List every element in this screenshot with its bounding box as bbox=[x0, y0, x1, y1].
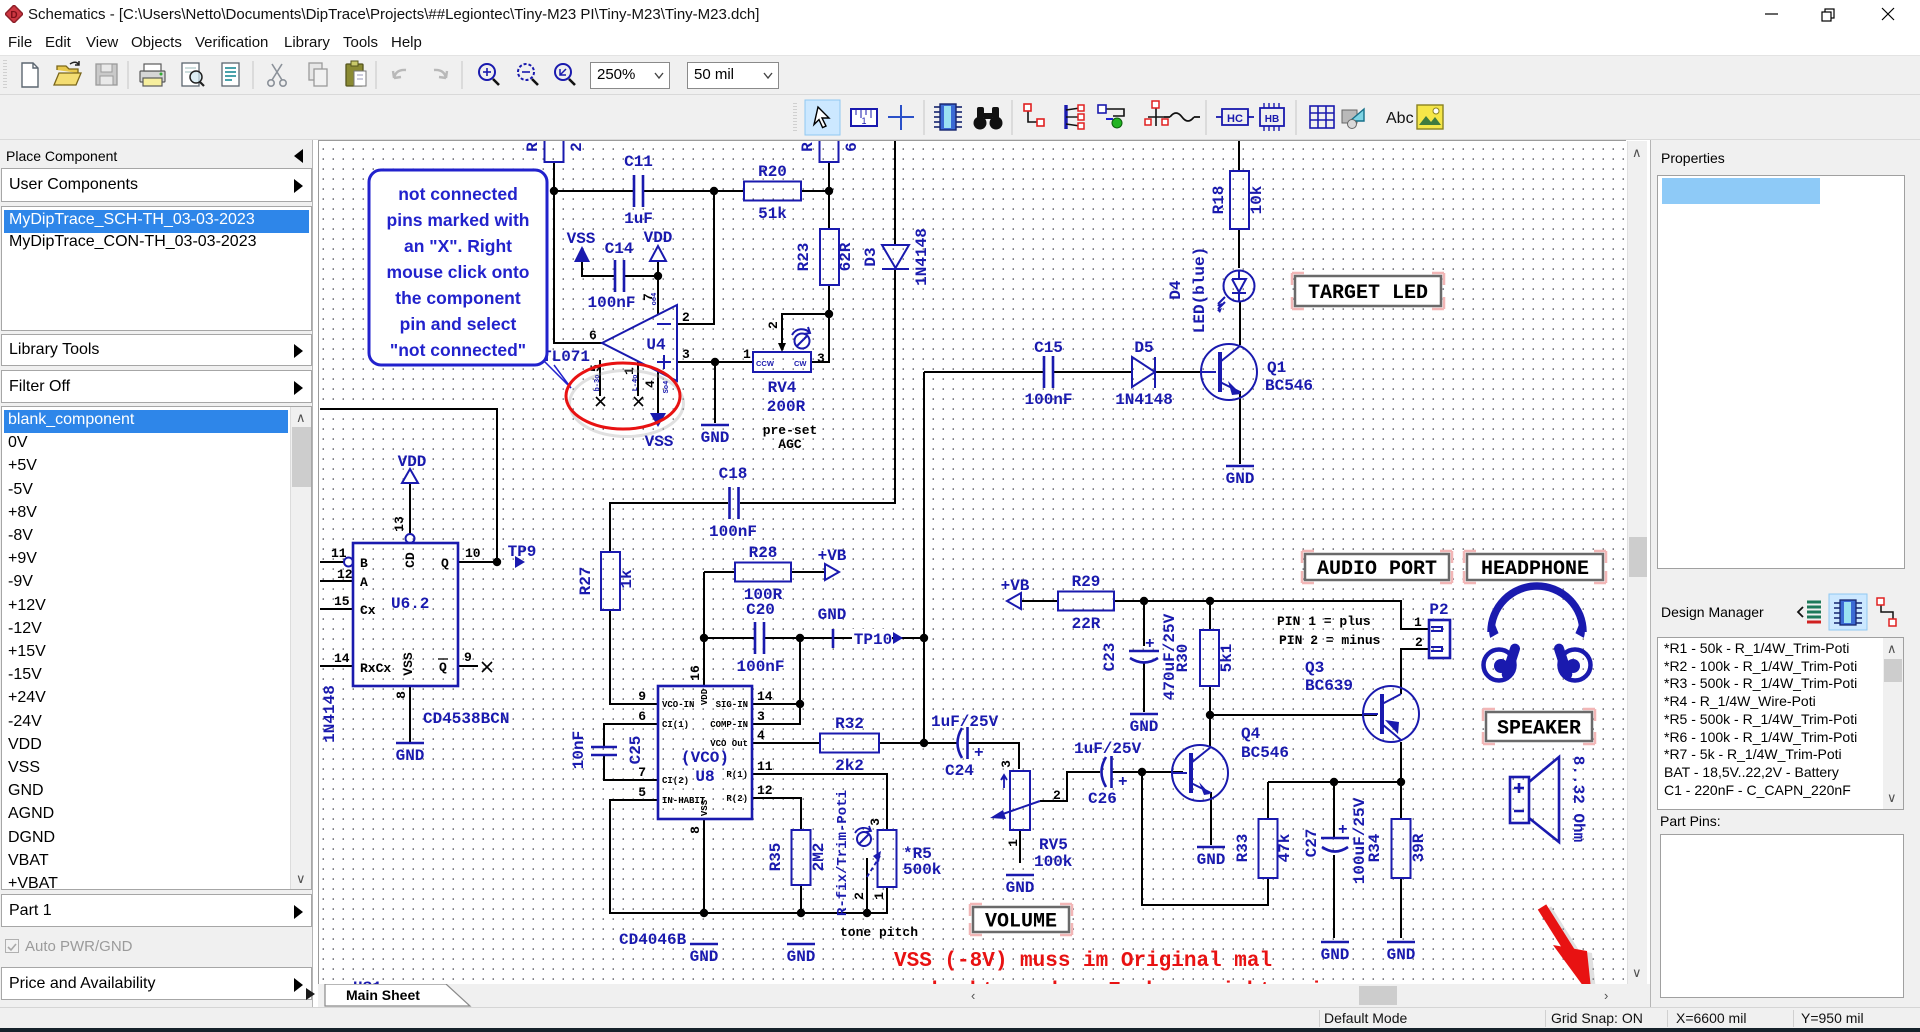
net +VB (R29) bbox=[1001, 577, 1030, 609]
wire Q1 emitter to GND bbox=[1239, 391, 1241, 464]
svg-text:+: + bbox=[1338, 821, 1348, 839]
svg-text:8: 8 bbox=[688, 826, 703, 834]
svg-text:A: A bbox=[360, 575, 368, 590]
ground (C23) bbox=[1130, 714, 1159, 736]
svg-text:VDD: VDD bbox=[644, 229, 673, 247]
capacitor C18 bbox=[709, 465, 757, 541]
wire C25 to U8 bbox=[604, 724, 658, 780]
svg-text:R27: R27 bbox=[577, 567, 595, 596]
svg-text:CCW: CCW bbox=[756, 359, 775, 368]
svg-text:L-4o: L-4o bbox=[632, 375, 640, 392]
wire D3 net to C18/R27 bbox=[610, 141, 895, 552]
svg-text:3: 3 bbox=[817, 351, 825, 366]
svg-text:8: 8 bbox=[394, 691, 409, 699]
svg-text:COMP-IN: COMP-IN bbox=[710, 720, 748, 730]
svg-text:3: 3 bbox=[868, 818, 883, 826]
svg-text:pin and select: pin and select bbox=[400, 314, 517, 334]
wire P2 pin2 Q3 bbox=[1401, 649, 1429, 782]
svg-text:7: 7 bbox=[638, 765, 646, 780]
svg-text:C23: C23 bbox=[1101, 643, 1119, 672]
svg-text:2k2: 2k2 bbox=[835, 757, 864, 775]
place component bbox=[934, 104, 962, 130]
svg-text:GND: GND bbox=[1006, 879, 1035, 897]
doc bbox=[222, 63, 239, 86]
resistor R23 bbox=[795, 229, 855, 285]
wire C14 / VDD / pin7 bbox=[582, 261, 658, 315]
svg-text:GND: GND bbox=[1130, 718, 1159, 736]
svg-text:Q: Q bbox=[439, 660, 447, 675]
svg-text:TP10: TP10 bbox=[854, 631, 892, 649]
capacitor C26 (polarized) bbox=[1074, 740, 1142, 808]
label box SPEAKER bbox=[1483, 709, 1595, 744]
svg-text:39R: 39R bbox=[1410, 833, 1428, 862]
svg-text:VSS (-8V) muss im Original mal: VSS (-8V) muss im Original mal bbox=[894, 950, 1272, 973]
picture bbox=[1417, 105, 1443, 129]
test point TP9 bbox=[508, 543, 537, 568]
svg-text:C27: C27 bbox=[1303, 829, 1321, 858]
capacitor C11 bbox=[624, 153, 653, 228]
svg-text:RV4: RV4 bbox=[768, 379, 797, 397]
svg-text:1uF/25V: 1uF/25V bbox=[1074, 740, 1142, 758]
resistor R22 (cut at top) bbox=[524, 128, 586, 162]
svg-text:RV5: RV5 bbox=[1039, 836, 1068, 854]
svg-text:9: 9 bbox=[638, 689, 646, 704]
ground (R34) bbox=[1387, 942, 1416, 964]
trimmer RV4 bbox=[743, 321, 825, 452]
svg-text:1: 1 bbox=[861, 116, 866, 126]
svg-text:mouse click onto: mouse click onto bbox=[387, 262, 530, 282]
svg-text:100k: 100k bbox=[1034, 853, 1073, 871]
zoom out bbox=[518, 64, 538, 85]
bus connect bbox=[1098, 105, 1124, 128]
ground (R35) bbox=[787, 944, 816, 966]
svg-text:47k: 47k bbox=[1276, 833, 1294, 862]
svg-text:U6.2: U6.2 bbox=[391, 595, 429, 613]
ground (U6.2 pin8) bbox=[396, 743, 425, 765]
speaker icon bbox=[1510, 756, 1587, 843]
svg-text:U8: U8 bbox=[695, 768, 714, 786]
svg-text:VSS: VSS bbox=[567, 230, 596, 248]
wire opamp nc pins bbox=[600, 360, 638, 396]
svg-text:R32: R32 bbox=[835, 715, 864, 733]
svg-text:VDD: VDD bbox=[398, 453, 427, 471]
svg-text:R29: R29 bbox=[1072, 573, 1101, 591]
bus bbox=[1066, 105, 1084, 129]
svg-text:1uF/25V: 1uF/25V bbox=[931, 713, 999, 731]
table bbox=[1310, 106, 1334, 128]
svg-text:CI(2): CI(2) bbox=[662, 776, 689, 786]
svg-text:9: 9 bbox=[464, 650, 472, 665]
svg-text:C26: C26 bbox=[1088, 790, 1117, 808]
open bbox=[54, 61, 81, 85]
svg-text:2M2: 2M2 bbox=[810, 843, 828, 872]
svg-text:1: 1 bbox=[872, 892, 887, 900]
svg-text:Main Sheet: Main Sheet bbox=[346, 987, 420, 1003]
svg-text:TP9: TP9 bbox=[508, 543, 537, 561]
LED D4 bbox=[1167, 247, 1255, 333]
wire opamp output to node bbox=[554, 191, 602, 343]
capacitor C20 bbox=[736, 601, 784, 676]
svg-text:SPEAKER: SPEAKER bbox=[1497, 718, 1581, 741]
wire VDD to pin13 bbox=[409, 484, 411, 534]
svg-text:1: 1 bbox=[1414, 615, 1422, 630]
bus wave bbox=[1164, 113, 1200, 121]
wire top net C11/R20 bbox=[554, 162, 829, 229]
svg-text:C20: C20 bbox=[746, 601, 775, 619]
svg-text:GND: GND bbox=[1387, 946, 1416, 964]
svg-text:GND: GND bbox=[1197, 851, 1226, 869]
svg-text:+: + bbox=[1145, 635, 1155, 653]
svg-text:›: › bbox=[1604, 988, 1608, 1003]
svg-text:4: 4 bbox=[643, 380, 658, 388]
svg-text:11: 11 bbox=[331, 546, 347, 561]
pin9 not-connected X bbox=[482, 662, 492, 672]
ground (C27) bbox=[1321, 942, 1350, 964]
wire opamp pin2 bbox=[677, 191, 714, 324]
resistor R29 bbox=[1058, 573, 1114, 633]
svg-text:CD: CD bbox=[403, 552, 418, 568]
wire U8 pin11 to R5 bbox=[752, 774, 887, 830]
save (disabled) bbox=[96, 64, 117, 85]
svg-text:10k: 10k bbox=[1248, 185, 1266, 214]
IC U8 CD4046B (VCO) bbox=[638, 665, 773, 834]
svg-text:C15: C15 bbox=[1034, 339, 1063, 357]
svg-text:+: + bbox=[974, 744, 984, 762]
wire VCO out R32 C24 bbox=[752, 372, 957, 743]
svg-text:D: D bbox=[10, 10, 17, 21]
resistor R35 bbox=[767, 830, 828, 885]
svg-text:+: + bbox=[1118, 773, 1128, 791]
redo bbox=[434, 70, 447, 78]
paste bbox=[346, 61, 366, 86]
svg-text:+VB: +VB bbox=[818, 547, 847, 565]
wire U8 pin14 pin3 bbox=[752, 638, 800, 724]
svg-text:500k: 500k bbox=[903, 861, 942, 879]
diode D5 bbox=[1115, 339, 1173, 409]
svg-text:12: 12 bbox=[337, 567, 353, 582]
svg-text:pins marked with: pins marked with bbox=[387, 210, 530, 230]
resistor R34 bbox=[1366, 819, 1428, 878]
cut bbox=[268, 64, 286, 86]
svg-text:U4: U4 bbox=[646, 336, 666, 354]
svg-text:B: B bbox=[360, 556, 368, 571]
svg-text:BC639: BC639 bbox=[1305, 677, 1353, 695]
svg-text:D4: D4 bbox=[1167, 280, 1185, 300]
wire opamp pin3 to RV4 bbox=[677, 361, 753, 363]
wire C23 bbox=[1143, 601, 1145, 712]
undo bbox=[393, 70, 406, 78]
svg-text:TARGET LED: TARGET LED bbox=[1308, 282, 1428, 305]
print bbox=[140, 64, 165, 86]
headphone icon bbox=[1484, 586, 1591, 681]
svg-text:Abc: Abc bbox=[1386, 110, 1414, 127]
copy bbox=[309, 63, 327, 86]
wire C24 to RV5 bbox=[968, 743, 1019, 769]
svg-text:R23: R23 bbox=[795, 243, 813, 272]
wire to GND under pin3 bbox=[714, 362, 716, 423]
svg-text:GND: GND bbox=[818, 606, 847, 624]
svg-text:2: 2 bbox=[1053, 788, 1061, 803]
label box TARGET LED bbox=[1292, 273, 1444, 309]
transistor Q3 BC639 bbox=[1305, 659, 1419, 742]
capacitor C25 bbox=[570, 731, 645, 769]
svg-text:2: 2 bbox=[1415, 635, 1423, 650]
svg-text:200R: 200R bbox=[767, 398, 806, 416]
svg-text:GND: GND bbox=[1321, 946, 1350, 964]
ground (Q1) bbox=[1226, 466, 1255, 488]
svg-text:C11: C11 bbox=[624, 153, 653, 171]
svg-text:12: 12 bbox=[757, 783, 773, 798]
svg-text:100nF: 100nF bbox=[709, 523, 757, 541]
red ellipse marker bbox=[566, 363, 684, 437]
wire R30 Q4 collector bbox=[1209, 601, 1211, 746]
svg-text:+VB: +VB bbox=[1001, 577, 1030, 595]
wire R34 to GND bbox=[1400, 878, 1402, 938]
svg-text:VDD: VDD bbox=[700, 688, 710, 705]
wire C27 to GND bbox=[1333, 855, 1335, 938]
label box VOLUME bbox=[970, 904, 1072, 935]
svg-text:CI(1): CI(1) bbox=[662, 720, 689, 730]
svg-text:R: R bbox=[524, 142, 542, 152]
svg-text:Q3: Q3 bbox=[1305, 659, 1324, 677]
svg-text:PIN 2 = minus: PIN 2 = minus bbox=[1279, 633, 1381, 648]
resistor R30 bbox=[1174, 630, 1236, 686]
resistor R20 bbox=[744, 163, 801, 223]
svg-text:HC: HC bbox=[1227, 113, 1243, 125]
svg-text:pre-set: pre-set bbox=[763, 423, 818, 438]
svg-text:VSS: VSS bbox=[700, 799, 710, 816]
resistor R21 (cut at top) bbox=[799, 128, 861, 162]
wire U8 pin12 to R35 bbox=[752, 798, 801, 830]
svg-text:Q4: Q4 bbox=[1241, 725, 1261, 743]
svg-text:Cx: Cx bbox=[360, 603, 376, 618]
crosshair bbox=[888, 105, 914, 130]
svg-text:oo4: oo4 bbox=[651, 293, 659, 306]
label PIN1/PIN2 bbox=[1277, 614, 1381, 648]
capacitor C14 bbox=[587, 240, 635, 312]
svg-text:1k: 1k bbox=[618, 569, 636, 589]
svg-text:R18: R18 bbox=[1210, 186, 1228, 215]
svg-text:16: 16 bbox=[688, 665, 703, 681]
svg-text:CW: CW bbox=[794, 359, 807, 368]
ground (U8) bbox=[690, 944, 719, 966]
svg-text:15: 15 bbox=[334, 594, 350, 609]
svg-text:VCO-IN: VCO-IN bbox=[662, 700, 694, 710]
svg-text:8..32 Ohm: 8..32 Ohm bbox=[1569, 756, 1587, 843]
resistor R18 bbox=[1210, 171, 1266, 229]
svg-text:LED(blue): LED(blue) bbox=[1191, 247, 1209, 333]
svg-text:1N4148: 1N4148 bbox=[321, 685, 339, 743]
svg-text:14: 14 bbox=[334, 651, 350, 666]
HB icon bbox=[1260, 103, 1284, 131]
svg-text:HB: HB bbox=[1265, 114, 1279, 125]
svg-text:R35: R35 bbox=[767, 843, 785, 872]
diode D3 bbox=[862, 228, 931, 286]
potentiometer RV5 bbox=[990, 760, 1073, 871]
svg-text:3: 3 bbox=[999, 760, 1014, 768]
svg-text:14: 14 bbox=[757, 689, 773, 704]
resistor R27 bbox=[577, 552, 636, 610]
label box HEADPHONE bbox=[1464, 551, 1606, 583]
svg-text:GND: GND bbox=[690, 948, 719, 966]
new bbox=[22, 63, 38, 87]
mil dropdown bbox=[687, 62, 779, 89]
preview bbox=[182, 63, 204, 86]
capacitor C27 (polarized) bbox=[1303, 797, 1369, 884]
svg-text:AGC: AGC bbox=[778, 437, 802, 452]
svg-text:1: 1 bbox=[743, 347, 751, 362]
resistor R32 bbox=[820, 715, 879, 775]
wire C26 to RV5 wiper bbox=[1040, 772, 1100, 801]
capacitor C24 (polarized) bbox=[931, 713, 999, 780]
zoom in bbox=[479, 64, 499, 85]
wire R18 LED Q1 bbox=[1239, 141, 1240, 345]
wire opamp pin4 to VSS bbox=[657, 371, 659, 413]
svg-text:1: 1 bbox=[1006, 839, 1021, 847]
svg-text:CD4046B: CD4046B bbox=[619, 931, 687, 949]
svg-text:GND: GND bbox=[1226, 470, 1255, 488]
svg-text:R20: R20 bbox=[758, 163, 787, 181]
wire Q4 base C26 R33 bbox=[1112, 772, 1268, 905]
dm icons bbox=[1796, 593, 1906, 633]
callout: not connected pins bbox=[369, 170, 571, 388]
svg-text:10nF: 10nF bbox=[570, 731, 588, 769]
svg-text:PIN 1 = plus: PIN 1 = plus bbox=[1277, 614, 1371, 629]
wire C15 D5 Q1 base bbox=[924, 371, 1216, 373]
svg-text:6: 6 bbox=[589, 328, 597, 343]
svg-text:not connected: not connected bbox=[398, 184, 518, 204]
power VSS (C14) bbox=[567, 230, 596, 262]
svg-text:5k1: 5k1 bbox=[1218, 644, 1236, 673]
ground (RV5) bbox=[1006, 875, 1035, 897]
resistor R33 bbox=[1234, 819, 1294, 878]
svg-text:AUDIO PORT: AUDIO PORT bbox=[1317, 558, 1437, 581]
svg-text:62R: 62R bbox=[837, 242, 855, 271]
svg-text:10: 10 bbox=[465, 546, 481, 561]
net +VB (R28) bbox=[818, 547, 847, 580]
red arrow bbox=[1542, 907, 1597, 1000]
net port bbox=[1145, 101, 1168, 126]
svg-text:C18: C18 bbox=[719, 465, 748, 483]
svg-text:C24: C24 bbox=[945, 762, 974, 780]
polygon bbox=[1342, 109, 1364, 129]
svg-text:BC546: BC546 bbox=[1241, 744, 1289, 762]
svg-text:VSS: VSS bbox=[401, 652, 416, 676]
trimmer *R5 bbox=[835, 790, 942, 916]
svg-text:C25: C25 bbox=[627, 736, 645, 765]
svg-text:P2: P2 bbox=[1429, 601, 1448, 619]
svg-text:1N4148: 1N4148 bbox=[913, 228, 931, 286]
power VDD (U6.2) bbox=[398, 453, 427, 483]
svg-text:VSS: VSS bbox=[645, 433, 674, 451]
svg-text:R(1): R(1) bbox=[726, 770, 748, 780]
svg-text:5: 5 bbox=[638, 785, 646, 800]
svg-text:SIG-IN: SIG-IN bbox=[716, 700, 748, 710]
svg-text:22R: 22R bbox=[1072, 615, 1101, 633]
wire Q3 base bbox=[1210, 714, 1377, 716]
svg-text:GND: GND bbox=[787, 948, 816, 966]
ground tap (C20 net) bbox=[818, 606, 847, 648]
connector P2 bbox=[1414, 601, 1450, 658]
wire bottom net U8 pin5/pin8 bbox=[610, 800, 887, 913]
svg-text:‹: ‹ bbox=[971, 988, 975, 1003]
svg-text:100nF: 100nF bbox=[736, 658, 784, 676]
svg-text:6: 6 bbox=[638, 709, 646, 724]
svg-text:RxCx: RxCx bbox=[360, 661, 391, 676]
svg-text:51k: 51k bbox=[758, 205, 787, 223]
svg-text:R34: R34 bbox=[1366, 833, 1384, 862]
svg-text:4: 4 bbox=[757, 728, 765, 743]
svg-text:3: 3 bbox=[757, 709, 765, 724]
capacitor C15 bbox=[1024, 339, 1072, 409]
zoom dropdown bbox=[590, 62, 670, 89]
svg-text:R30: R30 bbox=[1174, 644, 1192, 673]
svg-text:Q: Q bbox=[441, 556, 449, 571]
svg-text:2: 2 bbox=[852, 892, 867, 900]
svg-text:R33: R33 bbox=[1234, 834, 1252, 863]
svg-text:2: 2 bbox=[568, 142, 586, 152]
wire R28 / U8 pin16 bbox=[704, 572, 825, 686]
svg-text:"not connected": "not connected" bbox=[390, 340, 526, 360]
power VSS (opamp pin4) bbox=[645, 413, 674, 451]
svg-text:2: 2 bbox=[682, 310, 690, 325]
wire U6.2 pins left bbox=[320, 409, 497, 666]
op-amp U4 TL071 bbox=[542, 293, 690, 406]
cursor selected bbox=[805, 100, 840, 135]
svg-text:R28: R28 bbox=[749, 544, 778, 562]
wire R27 to U8 pin9 bbox=[610, 610, 658, 704]
svg-text:R(2): R(2) bbox=[726, 794, 748, 804]
wire emitter net R33 C27 R34 bbox=[1268, 782, 1401, 838]
wire U6.2 Q outputs bbox=[458, 562, 497, 666]
wire tool bbox=[1024, 104, 1044, 126]
wire RV5 to GND bbox=[1019, 830, 1021, 863]
svg-text:R: R bbox=[799, 142, 817, 152]
svg-text:1N4148: 1N4148 bbox=[1115, 391, 1173, 409]
resistor R28 bbox=[735, 544, 791, 604]
svg-text:11: 11 bbox=[757, 759, 773, 774]
binoculars bbox=[974, 107, 1003, 130]
svg-text:100nF: 100nF bbox=[1024, 391, 1072, 409]
capacitor C23 (polarized) bbox=[1101, 613, 1179, 700]
svg-text:HEADPHONE: HEADPHONE bbox=[1481, 558, 1589, 581]
svg-text:D5: D5 bbox=[1134, 339, 1153, 357]
HC icon bbox=[1216, 109, 1254, 125]
svg-text:tone pitch: tone pitch bbox=[840, 925, 918, 940]
bottom strip: sheet tab + hscrollbar bbox=[306, 988, 315, 1000]
wire U6.2 pin8 to GND bbox=[409, 686, 411, 742]
test point TP10 bbox=[852, 629, 903, 649]
label box AUDIO PORT bbox=[1302, 551, 1452, 583]
ground (opamp pin3 net) bbox=[701, 425, 730, 447]
svg-text:VOLUME: VOLUME bbox=[985, 911, 1057, 934]
zoom region bbox=[555, 64, 575, 85]
canvas vertical scrollbar bbox=[1627, 141, 1647, 984]
svg-text:VCO Out: VCO Out bbox=[710, 739, 748, 749]
svg-text:the component: the component bbox=[395, 288, 521, 308]
svg-text:(VCO): (VCO) bbox=[681, 749, 729, 767]
svg-text:an "X". Right: an "X". Right bbox=[404, 236, 512, 256]
wire C20 net bbox=[704, 637, 924, 639]
transistor Q4 BC546 bbox=[1172, 725, 1289, 801]
transistor Q1 BC546 bbox=[1201, 344, 1313, 400]
svg-text:100nF: 100nF bbox=[587, 294, 635, 312]
wire +VB R29 to P2 pin1 bbox=[1015, 601, 1429, 629]
svg-text:13: 13 bbox=[392, 516, 407, 532]
svg-text:2: 2 bbox=[766, 321, 781, 329]
svg-text:D3: D3 bbox=[862, 247, 880, 266]
wire R23 bottom / RV4 wiper bbox=[782, 285, 829, 362]
